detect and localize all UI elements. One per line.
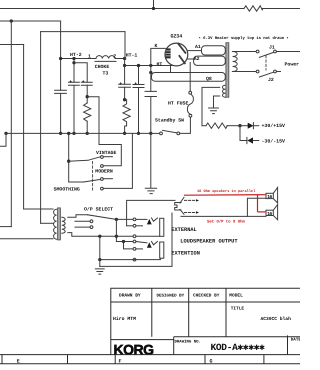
transformer T1 HT winding [222, 85, 225, 97]
switch J1 contact right [274, 50, 277, 53]
wire red parallel top [184, 194, 266, 197]
svg-text:-30/-15V: -30/-15V [262, 139, 286, 145]
wire plug sleeve return [100, 213, 172, 266]
diode D1 [248, 123, 254, 129]
dashed arrow top [185, 199, 197, 201]
jack J4 tip arrow [147, 242, 152, 248]
switch S1 contact2 [101, 165, 104, 168]
speaker SP2 horn [273, 205, 277, 220]
tube cathode box [166, 48, 171, 58]
node smoothing bus [67, 132, 70, 135]
svg-text:+30/+15V: +30/+15V [262, 123, 286, 129]
switch J1 contact left [256, 50, 259, 53]
capacitor C6 plates [145, 91, 156, 96]
svg-text:+: + [82, 80, 85, 85]
svg-text:O/P SELECT: O/P SELECT [84, 207, 113, 213]
svg-text:LOUDSPEAKER OUTPUT: LOUDSPEAKER OUTPUT [180, 239, 238, 245]
node (11,21) [10, 19, 13, 22]
wire exit left at 226.6 [0, 226, 11, 228]
svg-text:CHOKE: CHOKE [95, 64, 110, 70]
svg-text:HT FUSE: HT FUSE [168, 100, 188, 106]
node top rail junction [152, 7, 155, 10]
wire to OT top [24, 208, 53, 210]
svg-text:G: G [210, 359, 213, 365]
svg-text:HT-2: HT-2 [70, 52, 82, 58]
gang dashed link J1-J2 [265, 56, 267, 71]
wire vertical x=23.6 long [23, 45, 25, 210]
wire vintage contact stub [103, 156, 112, 158]
wire vertical x=40.6 long [40, 32, 42, 224]
capacitor C2 plates [69, 82, 80, 85]
title block drawingno divider [173, 337, 175, 355]
wire K from tube [151, 48, 165, 65]
svg-text:A1: A1 [195, 44, 201, 50]
node HT-1 (124.6,58.5) [123, 57, 126, 60]
wire C3 top feed [74, 63, 87, 82]
jack J3 ring contact [133, 224, 136, 227]
choke L1 coil [96, 56, 115, 59]
switch J2 contact left [256, 70, 259, 73]
svg-text:E: E [17, 359, 20, 365]
wire A2 from tube [188, 58, 194, 60]
wire speaker black bottom [181, 215, 266, 217]
capacitor C4 plates [119, 84, 131, 87]
standby switch blade [163, 130, 177, 133]
fuse terminal bottom [189, 114, 192, 117]
wire top HT rail [0, 8, 244, 10]
wire stub from top edge [153, 0, 155, 9]
wire ground drop G4 [99, 236, 101, 266]
wire vertical x=60.5 (HT-2 feed) [60, 21, 62, 90]
svg-text:VINTAGE: VINTAGE [96, 150, 116, 156]
wire ground lead from bus [150, 133, 152, 188]
wire C1 bottom to bus [60, 93, 62, 133]
node K line (150.6,66.7) [149, 64, 152, 67]
node smoothing pole1 [67, 160, 70, 163]
wire top rail right to edge [263, 8, 301, 10]
svg-text:KOD-A✱✱✱✱✱: KOD-A✱✱✱✱✱ [211, 342, 266, 353]
switch S1 contact VINTAGE [101, 156, 104, 159]
wire R3 to diode node [227, 125, 240, 127]
ground G4 [95, 269, 104, 274]
node R2 top (124.6,99.7) [123, 98, 126, 101]
node (60.5,58.5) [59, 57, 62, 60]
wire vertical x=125 HT-1 drop [124, 32, 126, 59]
plug P1 body [175, 203, 181, 211]
wire contact3 stub [103, 178, 112, 180]
transformer T1 winding Q8 ribbon [152, 73, 226, 82]
svg-text:Hiro MTM: Hiro MTM [113, 316, 136, 322]
svg-text:CHECKED BY: CHECKED BY [193, 294, 220, 299]
svg-text:+: + [134, 82, 137, 87]
wire C4 bottom [124, 87, 126, 99]
transformer T1 winding A1 ribbon [202, 46, 226, 55]
title block outer [111, 288, 300, 354]
border tick 3 [114, 355, 116, 364]
wire red to SP2 [258, 211, 267, 213]
jack J3 tip contact [133, 218, 136, 221]
border tick 1 [1, 355, 3, 364]
title block col line a [151, 288, 153, 337]
wire smoothing common drop [69, 133, 84, 182]
border tick 2 [67, 355, 69, 364]
svg-text:DRAWING NO.: DRAWING NO. [175, 340, 201, 345]
node L3 staple [122, 240, 125, 243]
choke core bar [95, 60, 116, 62]
svg-text:Standby SW: Standby SW [155, 118, 184, 124]
jack J4 sleeve contact [133, 258, 136, 261]
border tick 4 [204, 355, 206, 364]
svg-text:AC30CC blah: AC30CC blah [261, 316, 292, 322]
node standby bus (150.6,133.4) [149, 132, 152, 135]
svg-text:1: 1 [88, 54, 91, 60]
tube plate A1 stroke [178, 44, 185, 53]
capacitor C5 (x=138.5) lead [138, 66, 140, 85]
node diode junction [238, 124, 241, 127]
svg-text:EXTENTION: EXTENTION [171, 250, 200, 256]
svg-text:GZ34: GZ34 [171, 34, 183, 40]
wire primary bottom to J2 [232, 71, 256, 73]
jack J4 sleeve body [160, 242, 164, 258]
standby switch contact right [177, 132, 180, 135]
switch S2 blade modern [83, 179, 101, 182]
wire A1 from tube [188, 50, 202, 52]
switch O/P contact 8ohm [90, 226, 93, 229]
node (74,58.5) [72, 57, 75, 60]
node C5 bus [137, 132, 140, 135]
svg-text:16: 16 [267, 211, 272, 217]
svg-text:A2: A2 [194, 56, 200, 62]
ground G1 [145, 188, 156, 193]
svg-text:TITLE: TITLE [231, 306, 245, 311]
fuse HT-FUSE curve [187, 94, 193, 114]
transformer T2 secondary [62, 217, 65, 233]
jack J3 tip arrow [147, 219, 152, 225]
wire OT bottom from left edge [0, 238, 53, 240]
wire OT secondary top to O/P pivot [68, 215, 88, 218]
wire to OT mid tap [41, 222, 53, 224]
wire D1 out [253, 125, 258, 127]
node R1 bus [86, 132, 89, 135]
wire standby to fuse [180, 117, 191, 133]
ground G2 [209, 108, 219, 114]
wire O/P contact2 to tap [75, 226, 90, 228]
jack J4 tip contact [133, 240, 136, 243]
node O/P output [115, 218, 118, 221]
switch O/P SELECT blade [88, 215, 117, 220]
transformer T2 output primary [54, 209, 57, 239]
wire bus to standby contact [151, 132, 160, 134]
svg-text:T3: T3 [103, 71, 109, 77]
wire HT winding tap to ground [214, 96, 220, 108]
wire smoothing feed right [87, 97, 99, 145]
capacitor C3 plates [81, 82, 92, 85]
wire to jack1 tip [136, 218, 147, 220]
switch J1 blade [259, 52, 273, 57]
transformer T1 core [226, 43, 229, 97]
wire left rail C y=44.5 [0, 44, 24, 46]
wire contact4 to bus drop [103, 133, 132, 188]
transformer T2 core [58, 208, 61, 240]
tube GZ34 envelope U1 [165, 43, 188, 66]
node L2 ground branch [98, 235, 101, 238]
switch O/P contact 16ohm [90, 220, 93, 223]
capacitor C2 (x=74) top lead [73, 59, 75, 83]
wire primary top to J1 [232, 51, 256, 53]
wire speaker black top [247, 198, 266, 216]
border line upper [0, 354, 300, 356]
capacitor C5 plates [133, 85, 144, 88]
svg-text:HT: HT [157, 61, 163, 67]
wire C6 bottom to bus [150, 97, 152, 134]
switch J2 contact right [274, 70, 277, 73]
jack J3 sleeve contact [133, 235, 136, 238]
speaker SP1 horn [273, 187, 277, 203]
jack J3 V notch [152, 218, 158, 221]
wire O/P contact1 to tap [75, 220, 90, 222]
title block date divider [287, 335, 289, 354]
wire fuse to tube anode [189, 63, 191, 92]
jack J4 V notch [152, 241, 158, 244]
svg-text:K: K [155, 43, 158, 49]
wire C5 bottom to bus [138, 88, 140, 134]
wire left rail A y=21 [0, 20, 61, 22]
jack J3 sleeve body [160, 218, 164, 236]
switch J2 blade [259, 72, 273, 77]
wire D2 out [253, 140, 259, 142]
diode D2 [247, 137, 253, 143]
wire choke pin2 to HT-1 node [115, 58, 125, 60]
transformer T1 primary winding (right) [233, 52, 238, 72]
title block col line c [225, 288, 227, 337]
dashed arrow bottom [185, 212, 197, 214]
border tick 5 [263, 355, 265, 364]
title block col line b [188, 288, 190, 337]
capacitor C4 (x=124.6) lead [124, 59, 126, 85]
wire C3 bottom [86, 85, 88, 103]
plug P1 bottom prong [180, 210, 184, 215]
resistor R-top in HT rail [244, 6, 263, 11]
resistor R3 bias [206, 123, 227, 128]
node bottom line [98, 258, 101, 261]
wire J2 stub [276, 71, 280, 73]
wire heater stub to Q8 winding [170, 66, 172, 73]
svg-text:F: F [119, 359, 122, 365]
svg-text:Power: Power [285, 62, 300, 68]
switch S1 blade vintage [69, 157, 101, 162]
node ribbon tap [149, 71, 152, 74]
tube plate A2 stroke [179, 56, 184, 63]
capacitor C1 (x=60.5) plates [55, 90, 67, 93]
node R1 top (87.2,96.7) [86, 95, 89, 98]
node V1-L2 cross [115, 235, 118, 238]
node (138.5,66.7) [137, 64, 140, 67]
plug P1 top prong [180, 197, 184, 203]
svg-text:DESIGNED BY: DESIGNED BY [157, 294, 185, 299]
wire output drop V1 [116, 219, 133, 241]
node (74,62.8) [72, 61, 75, 64]
wire jack1 ring riser V2 [127, 200, 175, 225]
fuse terminal top [189, 91, 192, 94]
svg-text:+: + [119, 82, 122, 87]
svg-text:MODERN: MODERN [95, 169, 113, 175]
svg-text:2: 2 [113, 53, 116, 59]
wire to D1 [240, 125, 248, 127]
svg-text:• 6.3V Heater supply top is no: • 6.3V Heater supply top is not drawn • [199, 36, 289, 41]
gang dashed link smoothing [92, 162, 94, 191]
title block korg cell top [111, 339, 174, 341]
node C1 bus [59, 132, 62, 135]
svg-text:16 Ohm speakers in parallel: 16 Ohm speakers in parallel [197, 189, 256, 194]
node C2 bus [72, 132, 75, 135]
svg-text:J2: J2 [268, 77, 274, 83]
capacitor C6 (x=150.6) lead [150, 66, 152, 92]
switch S2 contact4 [101, 187, 104, 190]
wire bus y=133.4 [6, 132, 151, 134]
wire vertical x=11 long [10, 21, 12, 227]
wire bias node [202, 125, 206, 127]
choke HT-2 line [61, 58, 96, 60]
wire bottom sleeve line [100, 258, 161, 259]
svg-text:EXTERNAL: EXTERNAL [171, 227, 196, 233]
wire red vertical [257, 195, 259, 212]
svg-text:DATE: DATE [291, 338, 300, 343]
node bus left end [4, 132, 7, 135]
wire contact2 staple [99, 145, 121, 166]
transformer T1 winding A2 ribbon [194, 56, 226, 65]
svg-text:SMOOTHING: SMOOTHING [54, 186, 80, 192]
wire rail B y=31.6 [41, 31, 125, 33]
resistor R2 [123, 100, 130, 134]
speaker SP2 box [266, 210, 273, 215]
wire sleeve to jack1 body [136, 235, 160, 237]
wire C2 bottom to bus [73, 85, 75, 133]
standby switch contact left [160, 132, 163, 135]
wire OT bottom line L2 [68, 233, 133, 237]
svg-text:Set O/P to 8 Ohm: Set O/P to 8 Ohm [207, 219, 245, 224]
resistor R1 [84, 103, 91, 121]
svg-text:MODEL: MODEL [229, 293, 243, 299]
wire bus left hook [0, 133, 6, 146]
wire HT winding tap to bias resistor [202, 87, 220, 125]
wire staple to jack2 ring [124, 242, 134, 249]
wire jack1 ring to V2 [127, 225, 134, 227]
border line lower [0, 363, 300, 365]
wire diode branch down [240, 126, 247, 141]
speaker SP1 box [266, 193, 273, 198]
svg-text:DRAWN BY: DRAWN BY [119, 294, 141, 299]
svg-text:HT-1: HT-1 [126, 52, 138, 58]
wire R1 bottom to bus [86, 121, 88, 133]
node (124.6,66.7) [123, 64, 126, 67]
svg-text:16: 16 [267, 194, 272, 200]
title block row line 1 [111, 301, 300, 303]
wire J1 to right edge [276, 51, 300, 53]
svg-text:J1: J1 [269, 44, 275, 50]
svg-text:Q8: Q8 [206, 76, 212, 82]
red modification wires [184, 195, 266, 212]
wire HT line y=66.7 [125, 65, 174, 67]
title block bottom row top (right part) [174, 336, 300, 338]
jack J4 ring contact [133, 248, 136, 251]
svg-text:+: + [69, 80, 72, 85]
wire output to jack1 tip contact [116, 218, 133, 220]
node R2 bus [123, 132, 126, 135]
switch S2 contact3 [101, 178, 104, 181]
